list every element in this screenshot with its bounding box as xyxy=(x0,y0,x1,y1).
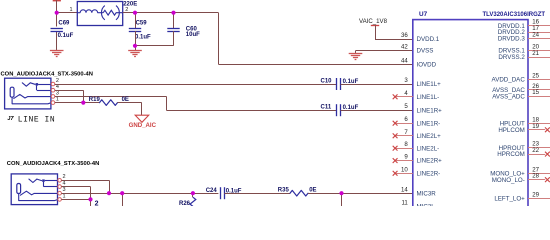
svg-text:C11: C11 xyxy=(321,105,332,111)
svg-text:C59: C59 xyxy=(136,21,148,27)
svg-text:1: 1 xyxy=(70,7,73,13)
svg-text:MIC3L: MIC3L xyxy=(417,204,436,206)
svg-text:19: 19 xyxy=(532,123,539,130)
svg-text:AVDD_DAC: AVDD_DAC xyxy=(492,77,526,84)
svg-text:4: 4 xyxy=(404,90,408,97)
svg-text:4: 4 xyxy=(63,181,66,187)
svg-text:R35: R35 xyxy=(278,188,290,194)
svg-text:LINE1R-: LINE1R- xyxy=(417,120,441,127)
svg-text:21: 21 xyxy=(532,50,539,57)
svg-text:MONO_LO-: MONO_LO- xyxy=(492,177,525,184)
svg-text:LINE2L+: LINE2L+ xyxy=(417,133,442,140)
svg-text:LINE2R+: LINE2R+ xyxy=(417,158,443,165)
svg-text:9: 9 xyxy=(404,154,408,161)
svg-text:LINE2L-: LINE2L- xyxy=(417,145,440,152)
svg-text:0.1uF: 0.1uF xyxy=(135,35,151,41)
svg-text:24: 24 xyxy=(532,32,539,39)
svg-text:2: 2 xyxy=(56,78,59,84)
svg-text:C10: C10 xyxy=(321,79,333,85)
svg-text:3: 3 xyxy=(63,187,66,193)
svg-text:14: 14 xyxy=(401,186,408,193)
svg-text:2: 2 xyxy=(63,174,66,180)
svg-text:3: 3 xyxy=(404,77,408,84)
svg-text:DVDD.1: DVDD.1 xyxy=(417,36,440,43)
svg-text:15: 15 xyxy=(532,89,539,96)
svg-text:HPLCOM: HPLCOM xyxy=(498,127,524,134)
svg-text:AVSS_ADC: AVSS_ADC xyxy=(492,93,525,100)
svg-text:LINE1L-: LINE1L- xyxy=(417,94,440,101)
svg-text:R19: R19 xyxy=(89,97,101,103)
svg-text:25: 25 xyxy=(532,72,539,79)
svg-text:LINE IN: LINE IN xyxy=(18,116,55,125)
svg-text:5: 5 xyxy=(404,103,408,110)
svg-text:0E: 0E xyxy=(309,188,316,194)
svg-text:44: 44 xyxy=(401,57,408,64)
svg-text:LINE1L+: LINE1L+ xyxy=(417,81,442,88)
svg-text:IOVDD: IOVDD xyxy=(417,62,437,69)
svg-text:0.1uF: 0.1uF xyxy=(58,33,74,39)
svg-text:36: 36 xyxy=(401,32,408,39)
svg-text:U7: U7 xyxy=(419,11,428,18)
svg-text:CON_AUDIOJACK4_STX-3500-4N: CON_AUDIOJACK4_STX-3500-4N xyxy=(1,72,93,78)
svg-text:DVSS: DVSS xyxy=(417,48,434,55)
svg-text:6: 6 xyxy=(404,116,408,123)
svg-text:LINE1R+: LINE1R+ xyxy=(417,107,443,114)
svg-text:28: 28 xyxy=(532,173,539,180)
svg-text:1: 1 xyxy=(63,193,66,199)
svg-text:7: 7 xyxy=(404,129,408,136)
svg-text:3: 3 xyxy=(56,90,59,96)
svg-text:C24: C24 xyxy=(206,188,218,194)
svg-text:8: 8 xyxy=(404,141,408,148)
svg-text:11: 11 xyxy=(401,200,408,206)
svg-text:10: 10 xyxy=(401,166,408,173)
svg-text:CON_AUDIOJACK4_STX-3500-4N: CON_AUDIOJACK4_STX-3500-4N xyxy=(7,161,99,167)
svg-text:J7: J7 xyxy=(7,116,14,122)
svg-text:TLV320AIC3106IRGZT: TLV320AIC3106IRGZT xyxy=(483,12,546,18)
svg-text:1: 1 xyxy=(56,97,59,103)
svg-text:GND_AIC: GND_AIC xyxy=(129,122,157,129)
svg-text:2: 2 xyxy=(95,201,99,206)
svg-text:LINE2R-: LINE2R- xyxy=(417,170,441,177)
svg-text:220E: 220E xyxy=(123,2,137,8)
svg-text:VAIC_1V8: VAIC_1V8 xyxy=(359,18,388,25)
svg-text:29: 29 xyxy=(532,192,539,199)
svg-text:42: 42 xyxy=(401,44,408,51)
svg-text:C69: C69 xyxy=(58,21,70,27)
svg-text:0.1uF: 0.1uF xyxy=(343,79,359,85)
svg-text:22: 22 xyxy=(532,147,539,154)
svg-text:R26: R26 xyxy=(179,201,191,206)
svg-text:MIC3R: MIC3R xyxy=(417,191,437,198)
svg-text:DRVSS.2: DRVSS.2 xyxy=(498,54,525,61)
svg-text:LEFT_LO+: LEFT_LO+ xyxy=(494,196,525,203)
svg-text:HPRCOM: HPRCOM xyxy=(497,151,525,158)
svg-text:DRVDD.3: DRVDD.3 xyxy=(498,36,526,43)
svg-text:10uF: 10uF xyxy=(186,32,200,38)
